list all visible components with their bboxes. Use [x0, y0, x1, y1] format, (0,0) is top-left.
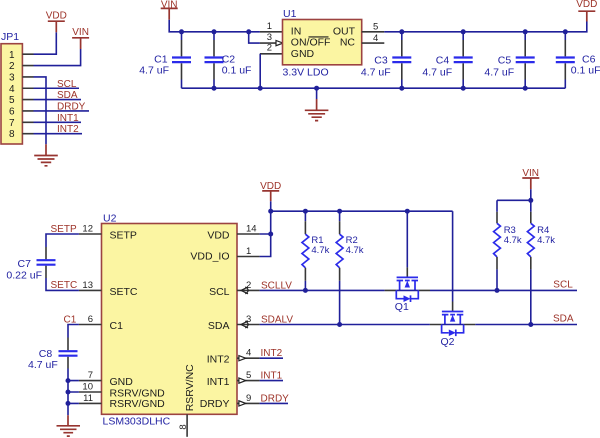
svg-text:DRDY: DRDY [261, 393, 290, 404]
svg-text:SDA: SDA [208, 320, 230, 332]
svg-text:JP1: JP1 [1, 31, 19, 43]
svg-text:6: 6 [88, 314, 93, 325]
svg-text:SETP: SETP [51, 224, 77, 235]
svg-text:4.7 uF: 4.7 uF [28, 359, 58, 371]
svg-text:OUT: OUT [333, 25, 356, 37]
svg-text:4.7k: 4.7k [311, 245, 329, 256]
svg-text:INT1: INT1 [57, 113, 79, 124]
svg-text:VDD: VDD [576, 0, 597, 10]
svg-text:9: 9 [246, 393, 251, 404]
svg-text:C7: C7 [18, 258, 32, 270]
svg-text:INT2: INT2 [261, 348, 283, 359]
svg-text:VDD: VDD [46, 11, 67, 22]
svg-text:5: 5 [9, 95, 15, 106]
svg-text:LSM303DLHC: LSM303DLHC [103, 416, 171, 428]
svg-text:IN: IN [291, 25, 302, 37]
svg-text:NC: NC [340, 37, 356, 49]
svg-text:C4: C4 [436, 54, 450, 66]
svg-text:U2: U2 [103, 212, 117, 224]
svg-text:4: 4 [9, 84, 15, 95]
svg-text:Q2: Q2 [441, 336, 455, 348]
svg-text:0.1 uF: 0.1 uF [222, 64, 252, 76]
svg-text:2: 2 [246, 280, 251, 291]
svg-text:0.22 uF: 0.22 uF [6, 270, 42, 282]
svg-text:4.7k: 4.7k [504, 235, 522, 246]
svg-text:VDD_IO: VDD_IO [190, 250, 229, 262]
svg-text:INT2: INT2 [57, 124, 79, 135]
svg-text:4.7 uF: 4.7 uF [361, 66, 391, 78]
svg-text:1: 1 [267, 21, 272, 32]
svg-text:3: 3 [246, 314, 251, 325]
svg-text:5: 5 [246, 370, 251, 381]
svg-text:SETC: SETC [51, 280, 78, 291]
svg-text:C1: C1 [64, 315, 77, 326]
svg-text:C3: C3 [374, 54, 388, 66]
svg-text:0.1 uF: 0.1 uF [571, 64, 600, 76]
svg-text:GND: GND [291, 48, 315, 60]
svg-text:4.7 uF: 4.7 uF [422, 66, 452, 78]
svg-text:VDD: VDD [207, 230, 230, 242]
svg-text:SETC: SETC [110, 286, 138, 298]
svg-text:3: 3 [9, 73, 15, 84]
svg-text:DRDY: DRDY [200, 398, 230, 410]
svg-text:VIN: VIN [72, 27, 89, 38]
svg-text:INT1: INT1 [261, 371, 283, 382]
svg-text:4: 4 [246, 348, 251, 359]
svg-text:4.7 uF: 4.7 uF [484, 66, 514, 78]
svg-text:2: 2 [9, 61, 15, 72]
svg-text:RSRV/GND: RSRV/GND [110, 398, 166, 410]
svg-text:13: 13 [82, 280, 93, 291]
svg-text:7: 7 [88, 370, 93, 381]
svg-text:3.3V LDO: 3.3V LDO [283, 67, 329, 79]
svg-text:RSRV/NC: RSRV/NC [184, 364, 196, 411]
svg-text:Q1: Q1 [395, 301, 409, 313]
svg-text:C5: C5 [498, 54, 512, 66]
svg-text:4.7 uF: 4.7 uF [139, 64, 169, 76]
svg-text:3: 3 [267, 32, 272, 43]
svg-text:12: 12 [82, 224, 93, 235]
svg-text:4.7k: 4.7k [537, 235, 555, 246]
svg-text:U1: U1 [283, 8, 297, 20]
svg-text:1: 1 [9, 50, 15, 61]
svg-text:2: 2 [267, 43, 272, 54]
svg-text:SDA: SDA [57, 90, 78, 101]
svg-text:SCL: SCL [209, 286, 230, 298]
svg-text:SCL: SCL [553, 280, 573, 291]
svg-text:DRDY: DRDY [57, 102, 86, 113]
svg-text:14: 14 [246, 224, 257, 235]
svg-text:ON/OFF: ON/OFF [291, 37, 331, 49]
svg-text:7: 7 [9, 118, 15, 129]
svg-text:8: 8 [9, 129, 15, 140]
svg-text:11: 11 [83, 393, 93, 404]
svg-text:10: 10 [82, 382, 93, 393]
svg-text:SDA: SDA [553, 313, 574, 324]
svg-text:INT1: INT1 [207, 376, 230, 388]
svg-text:SCL: SCL [57, 79, 77, 90]
svg-text:6: 6 [9, 107, 15, 118]
svg-text:SDALV: SDALV [261, 315, 293, 326]
svg-text:C1: C1 [110, 320, 124, 332]
svg-text:5: 5 [373, 21, 378, 32]
svg-text:4.7k: 4.7k [346, 245, 364, 256]
svg-text:SCLLV: SCLLV [261, 280, 292, 291]
svg-text:1: 1 [246, 246, 251, 257]
svg-text:SETP: SETP [110, 230, 137, 242]
svg-text:INT2: INT2 [207, 354, 230, 366]
svg-text:GND: GND [110, 376, 134, 388]
